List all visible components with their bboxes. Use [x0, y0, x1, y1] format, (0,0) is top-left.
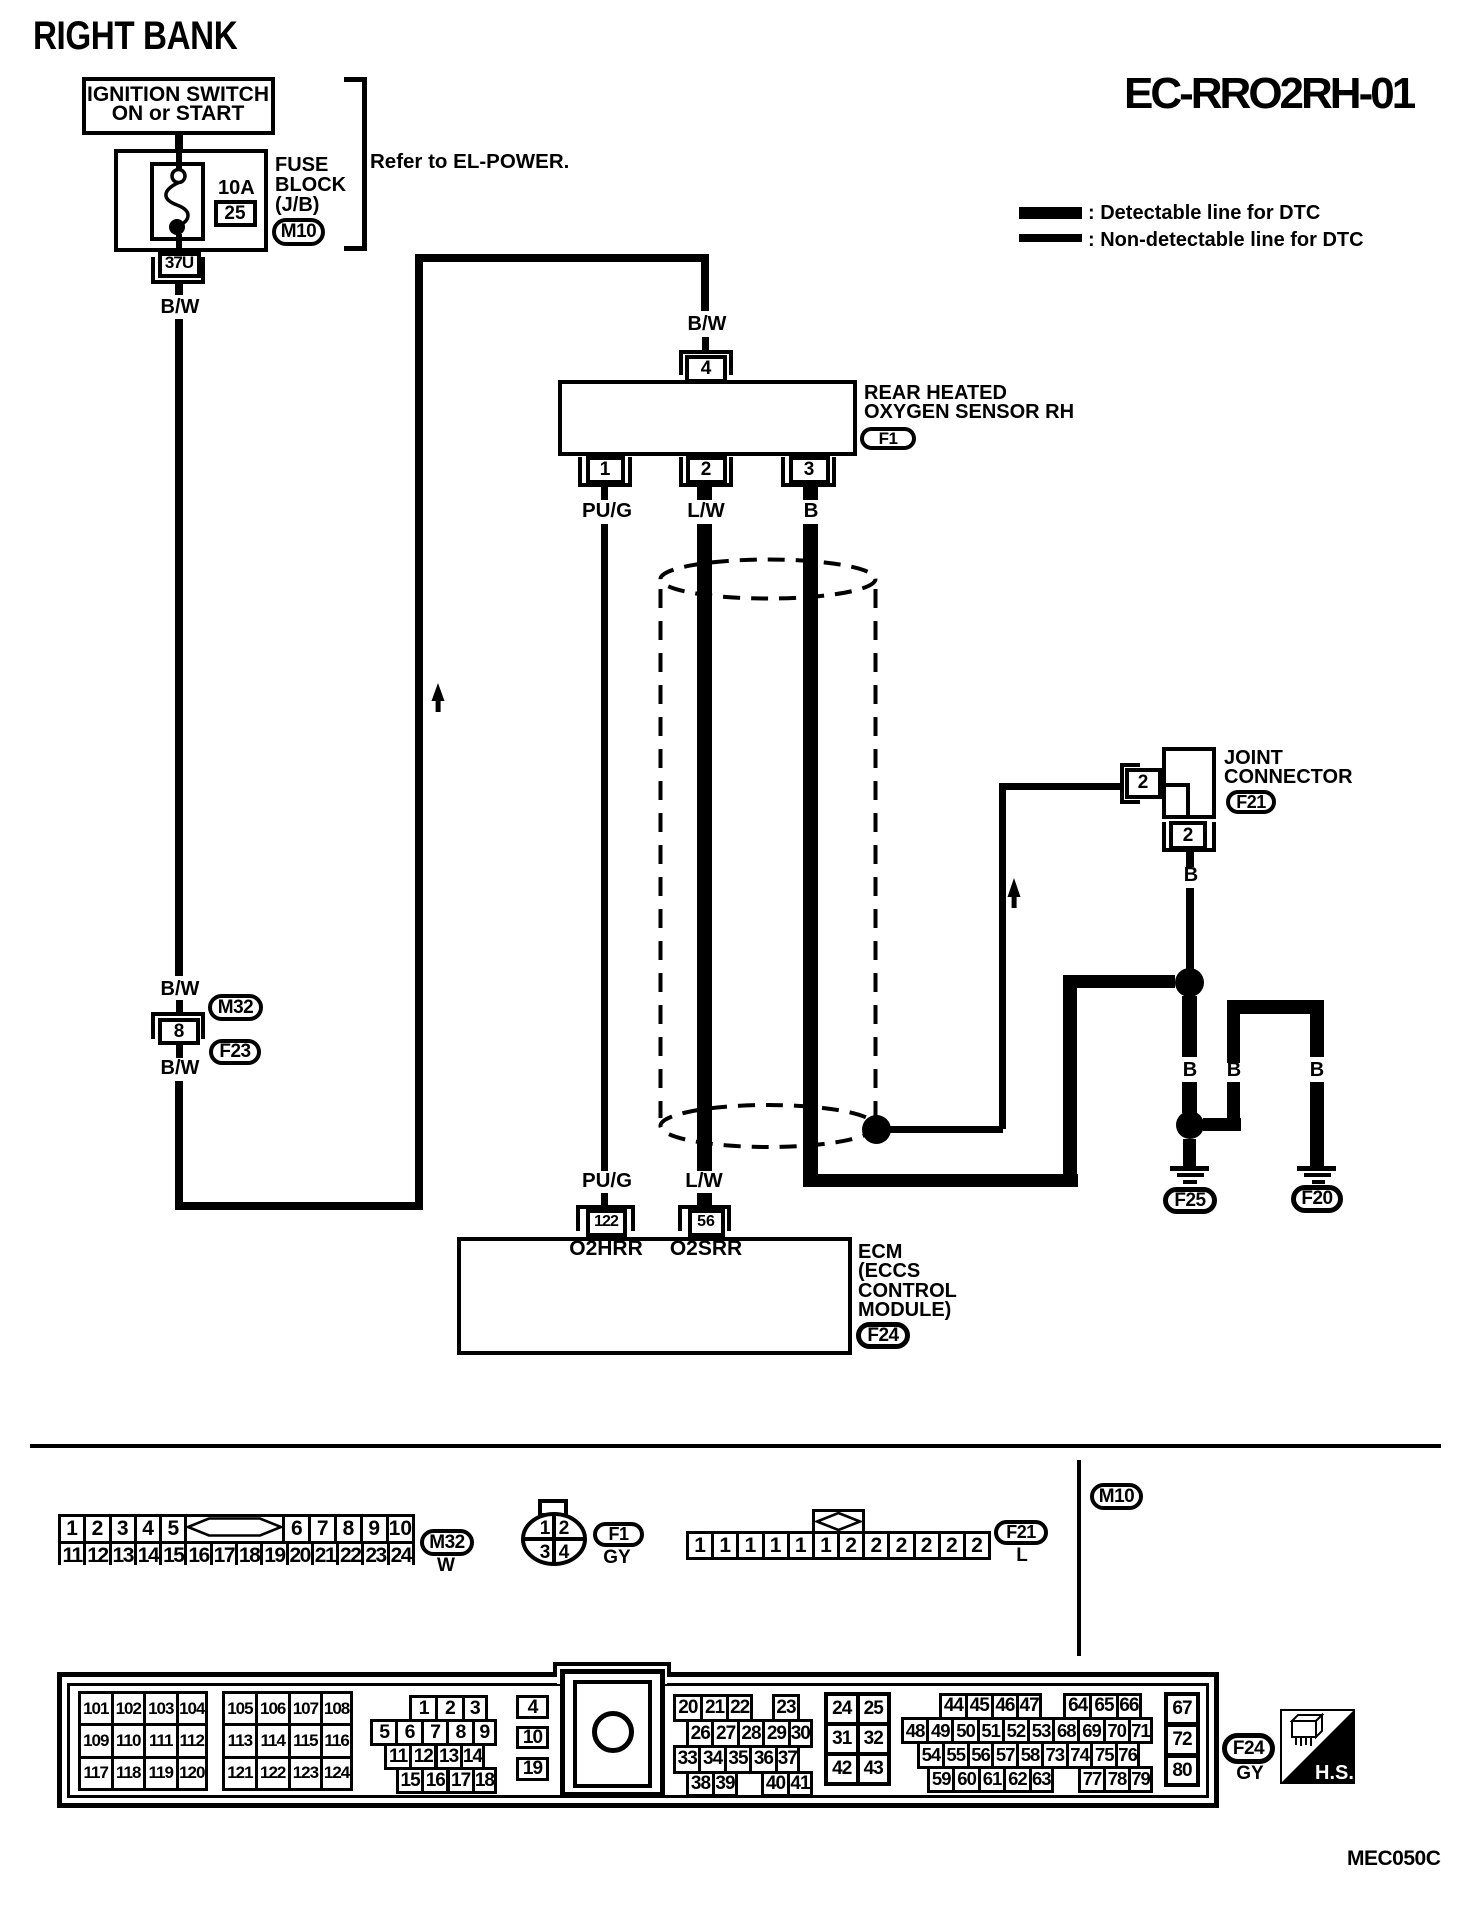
ECM connector center inner box	[573, 1680, 652, 1788]
ECM label line1	[858, 1242, 902, 1262]
ECM connector group B pin 124	[320, 1756, 353, 1791]
svg-text:H.S.: H.S.	[1315, 1762, 1354, 1784]
connector 37U inner box	[158, 252, 201, 278]
ECM connector far row1b pin 64	[1063, 1693, 1092, 1721]
svg-text:1: 1	[540, 1518, 551, 1539]
ECM connector group A pin 112	[176, 1723, 209, 1758]
joint pin 2 box	[1125, 768, 1162, 799]
legend thin non-detectable bar	[1019, 234, 1082, 242]
joint pin 2 bracket bottom stub	[1120, 800, 1140, 804]
ECM connector right row4b pin 40	[761, 1771, 790, 1797]
connector oval F21	[1226, 790, 1276, 814]
connector oval F24	[856, 1322, 910, 1349]
title RIGHT BANK	[33, 16, 237, 56]
ECM connector group B pin 123	[288, 1756, 324, 1791]
ECM connector right row1b pin 23	[772, 1694, 800, 1723]
ECM connector mid row2 pin 6	[395, 1719, 423, 1746]
ECM connector far row1b pin 66	[1116, 1693, 1142, 1721]
ECM connector pin 10	[516, 1726, 549, 1749]
wire B/W lower vertical	[175, 1081, 183, 1210]
wire label B/W above pin 4	[688, 314, 727, 334]
ECM connector group A pin 109	[78, 1723, 114, 1758]
wire ignition to fuse block	[175, 133, 183, 151]
ECM connector mid row4 pin 18	[472, 1767, 497, 1794]
wire label PU/G bottom	[582, 1171, 632, 1192]
ECM connector right row3 pin 33	[673, 1745, 701, 1774]
ECM connector far row2 pin 53	[1027, 1717, 1055, 1744]
wire joint to junction dot thin	[1186, 888, 1194, 969]
ECM connector mid row4 pin 16	[421, 1767, 449, 1794]
fuse number 25 text	[224, 204, 245, 223]
ECM connector group B pin 107	[288, 1691, 324, 1726]
sensor pin 3 bracket bottom bar	[781, 483, 836, 487]
sensor pin 2 bracket right leg	[729, 457, 733, 487]
wire B upper horizontal to junction	[1063, 975, 1175, 988]
connector view F21 diamond box	[812, 1509, 865, 1534]
sensor label line2	[864, 402, 1074, 422]
ECM connector far row4a pin 60	[952, 1766, 980, 1793]
ground oval F20	[1291, 1185, 1343, 1213]
ground F20 bar2	[1304, 1173, 1331, 1177]
ECM pin 56 bracket right leg	[727, 1205, 731, 1231]
wire bottom horizontal left loop	[175, 1202, 423, 1210]
bracket vertical line	[362, 77, 367, 251]
fuse block label BLOCK	[275, 175, 346, 195]
ECM label line3	[858, 1281, 957, 1301]
connector view F1 round 4-pin	[519, 1497, 591, 1570]
fuse symbol box	[150, 162, 205, 241]
ECM connector far row2 pin 69	[1077, 1717, 1105, 1744]
wire B right vertical up thick	[1063, 982, 1077, 1187]
ECM connector right row3 pin 37	[775, 1745, 800, 1774]
ECM connector group B pin 121	[222, 1756, 258, 1791]
sensor pin 2 bracket bottom bar	[679, 483, 733, 487]
ECM connector pins 24 25 31 32 42 43 grid	[824, 1692, 891, 1786]
ECM label line4	[858, 1300, 951, 1320]
joint lower pin 2 box	[1169, 821, 1207, 850]
ECM connector far row3 pin 56	[967, 1741, 995, 1769]
wire label L/W bottom	[685, 1171, 723, 1192]
legend detectable text	[1088, 203, 1320, 223]
ECM connector far row2 pin 50	[951, 1717, 979, 1744]
ECM connector far row3 pin 58	[1016, 1741, 1044, 1769]
ECM connector group B pin 115	[288, 1723, 324, 1758]
ECM connector right row3 pin 34	[698, 1745, 726, 1774]
wire to joint connector pin 2 horizontal	[999, 783, 1121, 790]
ECM connector far row1a pin 46	[991, 1693, 1020, 1721]
wire B bottom horizontal thick	[803, 1174, 1078, 1187]
F21 diamond	[815, 1512, 862, 1531]
ECM connector right row2 pin 28	[737, 1719, 765, 1748]
connector 37U bracket left leg	[151, 257, 155, 284]
joint lower pin 2 bracket left leg	[1162, 822, 1166, 852]
ECM connector far row4a pin 62	[1003, 1766, 1031, 1793]
ECM connector far row3 pin 54	[917, 1741, 945, 1769]
ECM connector far row1a pin 47	[1016, 1693, 1042, 1721]
wire pi left leg lower	[1227, 1082, 1240, 1131]
ECM pin 122 box	[586, 1209, 627, 1237]
wire B main vertical thick	[803, 524, 818, 1187]
ECM pin 122 number	[594, 1214, 618, 1230]
ECM pin 56 bracket left leg	[678, 1205, 682, 1231]
connector 8 inner box	[158, 1018, 200, 1045]
title EC-RRO2RH-01	[1124, 72, 1413, 116]
ECM connector far row2 pin 70	[1103, 1717, 1131, 1744]
wire L/W stub under pin 2	[697, 487, 712, 500]
wire L/W main vertical thick	[697, 524, 712, 1171]
sensor pin 1 bracket right leg	[628, 457, 632, 487]
ECM connector mid row2 pin 9	[472, 1719, 497, 1746]
wire PU/G stub under pin 1	[601, 487, 608, 500]
sensor pin 2 box	[686, 456, 727, 484]
wire right vertical of left loop	[415, 254, 423, 1210]
ECM connector right row4b pin 41	[787, 1771, 813, 1797]
wire pi right leg lower	[1310, 1082, 1324, 1167]
wire label B/W top left	[161, 297, 200, 317]
ECM connector far row4b pin 77	[1078, 1766, 1106, 1793]
ECM connector group A pin 101	[78, 1691, 114, 1726]
note refer to EL-POWER	[370, 152, 569, 173]
joint lower pin 2 bracket bottom bar	[1162, 848, 1216, 852]
fuse rating 10A	[218, 178, 255, 198]
connector oval M10 bottom	[1090, 1483, 1143, 1510]
sensor pin 1 box	[586, 456, 625, 484]
ECM connector center module box	[560, 1669, 665, 1797]
wire label B left leg	[1227, 1060, 1241, 1080]
ECM connector right row2 pin 27	[711, 1719, 739, 1748]
F1 color GY	[603, 1548, 630, 1567]
wire junction2 down to ground	[1183, 1139, 1196, 1167]
connector oval M32 bottom	[420, 1529, 474, 1556]
sensor pin 1 number	[600, 460, 611, 479]
ECM connector mid row3 pin 14	[460, 1743, 485, 1770]
connector 8 bracket right leg	[201, 1012, 205, 1039]
ECM connector group B pin 113	[222, 1723, 258, 1758]
wire B stub under pin 3	[803, 487, 818, 500]
ground F25 bar2	[1177, 1173, 1204, 1177]
ECM connector group A pin 117	[78, 1756, 114, 1791]
ECM connector far row2 pin 49	[926, 1717, 954, 1744]
ECM pin 122 bracket left leg	[576, 1205, 580, 1231]
ECM connector right row1a pin 20	[673, 1694, 703, 1723]
F24 color GY	[1236, 1764, 1263, 1783]
connector oval M32	[208, 994, 263, 1021]
ECM connector mid row1 pin 3	[462, 1695, 488, 1722]
ECM connector group B pin 105	[222, 1691, 258, 1726]
wire label B below joint	[1184, 865, 1198, 885]
junction dot shield drain	[862, 1115, 891, 1144]
wire stub above pin 4	[702, 337, 709, 350]
wire label B/W below connector 8	[161, 1058, 200, 1078]
ECM connector far row3 pin 75	[1090, 1741, 1118, 1769]
wire shield drain vertical thin	[999, 783, 1006, 1129]
ECM connector mid row4 pin 15	[396, 1767, 424, 1794]
ECM connector group B pin 108	[320, 1691, 353, 1726]
wire stub below joint pin 2	[1186, 852, 1194, 867]
legend non-detectable text	[1088, 230, 1364, 250]
wire pi left leg upper	[1227, 1001, 1240, 1063]
ECM connector mid row3 pin 12	[409, 1743, 437, 1770]
sensor pin 3 number	[804, 460, 815, 479]
drawing number MEC050C	[1347, 1848, 1440, 1869]
H.S. connector icon	[1292, 1715, 1322, 1737]
ignition switch text line1	[87, 84, 269, 105]
ECM connector mid row1 pin 2	[435, 1695, 464, 1722]
divider vertical line	[1077, 1460, 1081, 1656]
connector oval F21 bottom	[994, 1520, 1048, 1545]
ground F20 bar3	[1312, 1180, 1325, 1184]
ECM connector group A pin 110	[111, 1723, 147, 1758]
ECM connector right row1a pin 22	[726, 1694, 753, 1723]
ECM pin 56 box	[688, 1209, 725, 1237]
ECM connector right row2 pin 29	[762, 1719, 790, 1748]
ECM connector far row4b pin 79	[1128, 1766, 1153, 1793]
ECM connector right row2 pin 26	[686, 1719, 714, 1748]
connector view M32 24-pin	[58, 1514, 415, 1565]
F21 color L	[1016, 1546, 1028, 1565]
ECM connector far row4a pin 63	[1029, 1766, 1054, 1793]
ECM label line2	[858, 1261, 920, 1281]
sensor label line1	[864, 383, 1007, 403]
sensor pin 3 box	[789, 456, 830, 484]
ECM connector group A pin 102	[111, 1691, 147, 1726]
wire shield drain horizontal thin	[876, 1126, 1003, 1133]
ECM connector right row1a pin 21	[700, 1694, 730, 1723]
ECM connector far row2 pin 71	[1128, 1717, 1153, 1744]
sensor pin 1 bracket bottom bar	[578, 483, 632, 487]
wire B/W down to sensor pin 4	[701, 254, 709, 311]
ECM terminal O2SRR	[670, 1238, 742, 1259]
wire pi right leg upper	[1310, 1001, 1324, 1057]
joint connector internal horizontal line	[1162, 783, 1190, 787]
ECM connector mid row4 pin 17	[447, 1767, 475, 1794]
joint lower pin 2 bracket right leg	[1212, 822, 1216, 852]
fuse block label FUSE	[275, 155, 328, 175]
ECM pin 122 bracket top bar	[576, 1205, 635, 1209]
wire fuse top lead	[176, 151, 182, 171]
sensor pin 4 bracket left leg	[679, 350, 683, 375]
ECM connector far row3 pin 73	[1041, 1741, 1069, 1769]
joint connector internal vertical line	[1186, 783, 1190, 819]
ECM connector mid row3 pin 11	[384, 1743, 412, 1770]
connector oval F1	[860, 427, 916, 450]
connector 37U text	[165, 254, 193, 271]
wire PU/G main vertical	[601, 524, 608, 1171]
connector oval F1 bottom	[593, 1522, 644, 1547]
joint pin 2 bracket left bar	[1120, 763, 1124, 804]
ECM connector mid row2 pin 7	[421, 1719, 449, 1746]
fuse symbol 10A	[152, 163, 203, 238]
H.S. logo	[1280, 1709, 1355, 1784]
ECM connector pin 72	[1164, 1723, 1200, 1757]
joint connector label line2	[1224, 767, 1353, 787]
ECM connector inner box	[67, 1683, 1209, 1798]
joint pin 2 bracket top stub	[1120, 763, 1140, 767]
ECM connector mid row1 pin 1	[409, 1695, 438, 1722]
bracket bottom tick	[344, 246, 367, 251]
ECM connector far row1a pin 45	[965, 1693, 994, 1721]
junction dot 2	[1176, 1111, 1204, 1139]
ECM connector group B pin 114	[255, 1723, 291, 1758]
ECM connector far row4a pin 59	[927, 1766, 955, 1793]
wire junction2 stub right	[1203, 1118, 1241, 1131]
connector 8 text	[174, 1022, 185, 1041]
wire stub below connector 8	[176, 1045, 183, 1058]
wire stub above connector 8	[176, 1000, 183, 1012]
sensor pin 4 bracket top bar	[679, 350, 733, 354]
wire fuse bottom lead	[176, 234, 182, 252]
ECM connector far row3 pin 76	[1115, 1741, 1140, 1769]
ECM connector pin 80	[1164, 1754, 1200, 1787]
junction dot 1	[1175, 968, 1204, 997]
sensor pin 4 number	[701, 359, 712, 378]
wire junction1 down thick	[1182, 996, 1197, 1057]
ECM connector mid row2 pin 8	[446, 1719, 474, 1746]
ECM connector far row1a pin 44	[939, 1693, 968, 1721]
connector oval F23	[209, 1039, 261, 1065]
wire B/W main vertical	[175, 319, 183, 976]
ECM connector group A pin 111	[143, 1723, 179, 1758]
svg-text:3: 3	[540, 1542, 551, 1563]
wire label B top	[804, 501, 819, 522]
ECM connector group A pin 118	[111, 1756, 147, 1791]
ECM terminal O2HRR	[569, 1238, 643, 1259]
sensor pin 3 bracket right leg	[832, 457, 836, 487]
wire label L/W top	[687, 501, 725, 522]
M32 color W	[437, 1556, 455, 1575]
legend thick detectable bar	[1019, 207, 1082, 219]
ECM connector far row3 pin 57	[991, 1741, 1019, 1769]
ECM connector group A pin 103	[143, 1691, 179, 1726]
separator horizontal line	[30, 1444, 1441, 1448]
arrow up on shield drain wire	[1007, 878, 1022, 909]
wire label B ground middle	[1183, 1060, 1197, 1080]
fuse block box M10	[114, 149, 268, 252]
ground F20 bar1	[1297, 1166, 1336, 1171]
wire label B/W above connector 8	[161, 979, 200, 999]
ECM connector pin 67	[1164, 1692, 1200, 1726]
sensor pin 2 bracket left leg	[679, 457, 683, 487]
sensor pin 3 bracket left leg	[781, 457, 785, 487]
wire PU/G stub to pin 122	[601, 1193, 608, 1205]
ECM connector mid row2 pin 5	[370, 1719, 398, 1746]
ECM connector outer box	[57, 1672, 1219, 1808]
joint lower pin 2 number	[1183, 826, 1194, 845]
ECM connector far row2 pin 48	[901, 1717, 929, 1744]
ECM connector right row3 pin 35	[724, 1745, 752, 1774]
ECM connector right row2 pin 30	[788, 1719, 813, 1748]
sensor pin 4 bracket right leg	[729, 350, 733, 375]
ECM connector far row2 pin 51	[977, 1717, 1005, 1744]
ECM connector right row3 pin 36	[749, 1745, 777, 1774]
ECM connector far row4b pin 78	[1103, 1766, 1131, 1793]
ground F25 bar1	[1170, 1166, 1209, 1171]
ECM connector far row2 pin 68	[1052, 1717, 1080, 1744]
svg-text:2: 2	[559, 1518, 570, 1539]
ECM connector group A pin 120	[176, 1756, 209, 1791]
svg-text:4: 4	[559, 1542, 570, 1563]
bracket top tick	[344, 77, 367, 82]
connector oval F24 bottom	[1222, 1733, 1275, 1764]
shield cylinder dashed	[640, 545, 900, 1160]
ECM connector group B pin 122	[255, 1756, 291, 1791]
joint connector body F21	[1162, 747, 1216, 819]
connector 8 bracket left leg	[151, 1012, 155, 1039]
ECM connector pin 19	[516, 1757, 549, 1781]
ignition switch text line2	[112, 103, 245, 124]
ECM connector group A pin 119	[143, 1756, 179, 1791]
ECM connector far row1b pin 65	[1089, 1693, 1118, 1721]
wire L/W stub to pin 56	[697, 1193, 712, 1205]
connector oval M10	[272, 218, 325, 246]
fuse number 25 box	[214, 200, 257, 227]
wire label B right leg	[1310, 1060, 1324, 1080]
rear heated oxygen sensor RH box F1	[558, 380, 857, 456]
ECM connector group A pin 104	[176, 1691, 209, 1726]
ECM box F24	[457, 1237, 852, 1355]
ECM connector group B pin 116	[320, 1723, 353, 1758]
sensor pin 2 number	[701, 460, 712, 479]
ECM connector group B pin 106	[255, 1691, 291, 1726]
ECM pin 56 bracket top bar	[678, 1205, 731, 1209]
wire pi top horizontal thick	[1227, 1000, 1324, 1014]
joint connector label line1	[1224, 748, 1283, 768]
ECM pin 56 number	[697, 1214, 715, 1230]
ECM connector center circle	[592, 1711, 634, 1753]
ECM pin 122 bracket right leg	[631, 1205, 635, 1231]
connector view F21 12-pin strip	[686, 1531, 991, 1560]
ECM connector far row3 pin 74	[1066, 1741, 1094, 1769]
ECM connector right row4a pin 39	[712, 1771, 738, 1797]
wire top horizontal to pin4	[415, 254, 709, 262]
ECM connector top tab	[553, 1662, 557, 1676]
wire to junction dot 2 thick	[1182, 1082, 1197, 1113]
ignition switch box	[82, 77, 275, 135]
connector 8 bracket top bar	[151, 1012, 205, 1016]
sensor pin 4 box	[685, 355, 727, 383]
ECM connector far row2 pin 52	[1002, 1717, 1030, 1744]
wire 37U stub	[175, 284, 183, 295]
ECM connector right row4a pin 38	[686, 1771, 715, 1797]
connector 37U bracket bottom bar	[151, 280, 205, 284]
ground oval F25	[1163, 1187, 1217, 1214]
ECM connector far row3 pin 55	[942, 1741, 970, 1769]
joint pin 2 number	[1138, 773, 1149, 792]
ECM connector mid row3 pin 13	[435, 1743, 463, 1770]
ECM connector far row4a pin 61	[978, 1766, 1006, 1793]
arrow up on left loop wire	[431, 683, 446, 713]
ground F25 bar3	[1183, 1180, 1197, 1184]
wire label PU/G top	[582, 501, 632, 522]
sensor pin 1 bracket left leg	[578, 457, 582, 487]
connector 37U bracket right leg	[201, 257, 205, 284]
ECM connector pin 4	[516, 1695, 549, 1719]
M32 lens shape	[187, 1517, 282, 1541]
fuse block label J/B	[275, 195, 319, 215]
